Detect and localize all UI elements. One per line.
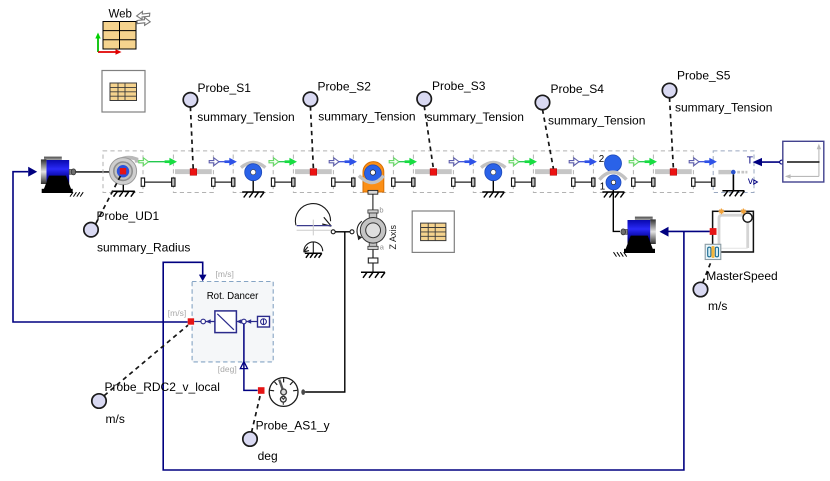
MasterSpeed sub-icon xyxy=(705,244,721,259)
ground under roller 1 xyxy=(242,181,264,198)
roller 1 xyxy=(241,163,265,181)
unit dashed frame s1 xyxy=(173,151,213,193)
angle sensor (arc with arrow) xyxy=(295,204,331,236)
probe Probe_S2 xyxy=(303,92,317,106)
probe dashed line Probe_S4 xyxy=(543,110,554,169)
unit dashed frame r2 xyxy=(473,151,513,193)
probe dashed line Probe_AS1_y xyxy=(252,394,261,433)
end clamp (web exit) xyxy=(718,170,747,175)
gauge output connector xyxy=(301,389,305,395)
coupling connectors 7 xyxy=(512,178,536,186)
icon table-box middle xyxy=(412,211,454,252)
svg-text:T: T xyxy=(747,155,754,166)
wire angle feedback xyxy=(244,324,258,391)
sensor flange a xyxy=(331,230,335,234)
input arrow v_master xyxy=(199,275,207,282)
svg-text:Probe_UD1: Probe_UD1 xyxy=(97,209,160,223)
roller 2 xyxy=(481,163,505,181)
web span S5 (tension element) xyxy=(655,169,692,176)
web span S3 (tension element) xyxy=(415,169,452,176)
label T xyxy=(747,155,754,166)
probe Probe_RDC2_v_local xyxy=(92,394,106,408)
label b xyxy=(379,206,383,215)
label Probe_S5 summary xyxy=(675,101,772,115)
svg-text:Z Axis: Z Axis xyxy=(388,224,398,249)
icon swap-arrows xyxy=(137,11,151,25)
svg-text:summary_Tension: summary_Tension xyxy=(318,109,415,123)
svg-text:Rot. Dancer: Rot. Dancer xyxy=(207,291,259,302)
angle gauge AS1 xyxy=(269,378,298,407)
probe dashed line MasterSpeed xyxy=(703,260,712,283)
label Probe_S2 xyxy=(318,80,372,94)
label deg xyxy=(258,449,278,463)
svg-text:v: v xyxy=(748,176,754,187)
probe dashed line Probe_UD1 xyxy=(96,173,122,224)
unit dashed frame r1 xyxy=(233,151,273,193)
web velocity arrows blue 10 xyxy=(689,158,717,166)
svg-text:summary_Tension: summary_Tension xyxy=(675,101,772,115)
label MasterSpeed xyxy=(706,269,777,283)
web velocity arrows green 3 xyxy=(269,158,297,166)
unit dashed frame roll xyxy=(103,151,143,193)
unit dashed frame s4 xyxy=(533,151,573,193)
MasterSpeed input red square xyxy=(710,228,717,235)
label Probe_S3 xyxy=(432,79,486,93)
svg-text:summary_Tension: summary_Tension xyxy=(427,110,524,124)
probe Probe_S5 xyxy=(662,83,676,97)
unit dashed frame dan xyxy=(353,151,393,193)
web label xyxy=(109,9,132,21)
svg-text:Probe_S2: Probe_S2 xyxy=(318,80,372,94)
gauge red square input xyxy=(258,387,265,394)
label Probe_S4 summary xyxy=(548,114,645,128)
web velocity arrows blue 4 xyxy=(329,158,357,166)
svg-text:summary_Tension: summary_Tension xyxy=(197,110,294,124)
svg-text:Probe_S5: Probe_S5 xyxy=(677,69,731,83)
unit dashed frame s3 xyxy=(413,151,453,193)
wire dancer to joint xyxy=(372,194,374,210)
svg-text:2: 2 xyxy=(599,154,604,165)
web velocity arrows green 9 xyxy=(629,158,657,166)
coupling connectors 9 xyxy=(632,178,655,186)
svg-text:m/s: m/s xyxy=(708,299,727,313)
damper element xyxy=(368,258,378,263)
coupling connectors 1 xyxy=(141,178,175,186)
svg-text:Web: Web xyxy=(109,9,132,21)
probe Probe_S1 xyxy=(183,93,197,107)
web span S4 (tension element) xyxy=(535,169,572,176)
coupling connectors 8 xyxy=(572,178,595,186)
probe dashed line Probe_S5 xyxy=(670,98,674,169)
svg-text:[m/s]: [m/s] xyxy=(168,308,186,318)
coupling connectors 4 xyxy=(332,178,355,186)
rotational support (fixed) xyxy=(304,242,323,258)
coupling connectors 6 xyxy=(452,178,475,186)
web velocity arrows blue 6 xyxy=(449,158,477,166)
controller box Rot. Dancer xyxy=(192,282,273,362)
label v output xyxy=(748,176,758,187)
svg-text:Probe_RDC2_v_local: Probe_RDC2_v_local xyxy=(105,380,220,394)
probe MasterSpeed xyxy=(693,282,707,296)
connector circle 1 xyxy=(194,319,215,324)
ground under end clamp xyxy=(722,174,744,196)
svg-text:1: 1 xyxy=(600,181,605,192)
label m/s right xyxy=(708,299,727,313)
unit dashed frame end xyxy=(713,151,754,193)
web span S1 (tension element) xyxy=(175,169,212,176)
coupling connectors 3 xyxy=(271,178,295,186)
wire v-ref to motor M1 and Rot.Dancer output xyxy=(13,172,188,322)
wire damper to ground xyxy=(372,263,374,272)
svg-text:a: a xyxy=(380,243,385,252)
wire motor1 shaft xyxy=(76,171,110,173)
tension input arrow xyxy=(753,158,784,166)
probe Probe_UD1 xyxy=(84,223,98,237)
label m/s left xyxy=(106,412,125,426)
label Probe_S4 xyxy=(551,82,605,96)
svg-text:summary_Radius: summary_Radius xyxy=(97,241,190,255)
ground under nip xyxy=(602,192,624,198)
coupling connectors 10 xyxy=(692,178,715,186)
probe Probe_S4 xyxy=(535,95,549,109)
icon web-grid xyxy=(103,22,136,50)
output red square v_local xyxy=(188,318,194,324)
nip roller pair xyxy=(599,155,626,190)
label summary_Radius xyxy=(97,241,190,255)
dancer roller RDC2 (orange) xyxy=(359,162,384,195)
label nip 2 xyxy=(599,154,604,165)
constant tension source block xyxy=(783,141,824,182)
joint flange b xyxy=(350,230,354,234)
svg-text:summary_Tension: summary_Tension xyxy=(548,114,645,128)
label Probe_S2 summary xyxy=(318,109,415,123)
wire gauge to dancer joint xyxy=(305,232,345,392)
gain block xyxy=(215,311,237,333)
svg-text:[deg]: [deg] xyxy=(218,364,237,374)
label Probe_S3 summary xyxy=(427,110,524,124)
label Probe_S1 xyxy=(198,81,252,95)
wire master speed distribution xyxy=(163,231,710,470)
unit dashed frame s2 xyxy=(293,151,333,193)
probe dashed line Probe_S2 xyxy=(310,106,313,168)
probe Probe_S3 xyxy=(417,92,431,106)
label Probe_RDC2_v_local xyxy=(105,380,220,394)
probe dashed line Probe_RDC2_v_local xyxy=(104,325,188,395)
probe Probe_AS1_y xyxy=(243,432,257,446)
svg-text:Probe_S1: Probe_S1 xyxy=(198,81,252,95)
wire nip to motor M2 xyxy=(613,190,620,231)
label Probe_S1 summary xyxy=(197,110,294,124)
web velocity arrows green 7 xyxy=(509,158,537,166)
web velocity arrows blue 2 xyxy=(209,158,237,166)
label nip 1 xyxy=(600,181,605,192)
unit dashed frame s5 xyxy=(653,151,693,193)
label Probe_AS1_y xyxy=(256,419,330,433)
motor M1 (unwinder drive) xyxy=(28,157,83,197)
unit dashed frame nip xyxy=(593,151,633,193)
svg-text:Probe_AS1_y: Probe_AS1_y xyxy=(256,419,330,433)
connector circle 2 xyxy=(236,319,246,324)
svg-text:[m/s]: [m/s] xyxy=(216,269,234,279)
coupling connectors 2 xyxy=(212,178,235,186)
svg-text:m/s: m/s xyxy=(106,412,125,426)
svg-text:b: b xyxy=(379,206,383,215)
phi sensor block xyxy=(246,316,269,327)
revolute joint Z-axis xyxy=(357,210,386,250)
svg-text:MasterSpeed: MasterSpeed xyxy=(706,269,777,283)
ground under roller 2 xyxy=(482,181,504,198)
probe dashed line Probe_S1 xyxy=(190,107,193,169)
label Rot. Dancer xyxy=(207,291,259,302)
web velocity arrows blue 8 xyxy=(569,158,597,166)
web span S2 (tension element) xyxy=(295,169,332,176)
wire sensor to joint xyxy=(335,231,350,233)
web velocity arrows green 5 xyxy=(389,158,417,166)
svg-text:Probe_S4: Probe_S4 xyxy=(551,82,605,96)
icon table-box top-left xyxy=(102,71,145,113)
motor M2 (nip drive) xyxy=(614,217,669,257)
label a xyxy=(380,243,385,252)
coupling connectors 5 xyxy=(392,178,415,186)
label [deg] xyxy=(218,364,237,374)
input arrow angle [deg] xyxy=(240,362,247,369)
ground under roll UD1 xyxy=(112,185,135,197)
wire joint to damper xyxy=(372,250,374,259)
label [m/s] top xyxy=(216,269,234,279)
label Probe_UD1 xyxy=(97,209,160,223)
label [m/s] left xyxy=(168,308,186,318)
svg-text:Probe_S3: Probe_S3 xyxy=(432,79,486,93)
web velocity arrows green 1 xyxy=(139,158,177,166)
label Z Axis xyxy=(388,224,398,249)
icon axes xyxy=(95,33,121,55)
svg-text:deg: deg xyxy=(258,449,278,463)
ground under Z-axis xyxy=(361,272,385,278)
roll UD1 (unwind roll) xyxy=(109,158,136,185)
probe dashed line Probe_S3 xyxy=(424,106,433,169)
MasterSpeed profile block xyxy=(713,209,754,253)
label Probe_S5 xyxy=(677,69,731,83)
